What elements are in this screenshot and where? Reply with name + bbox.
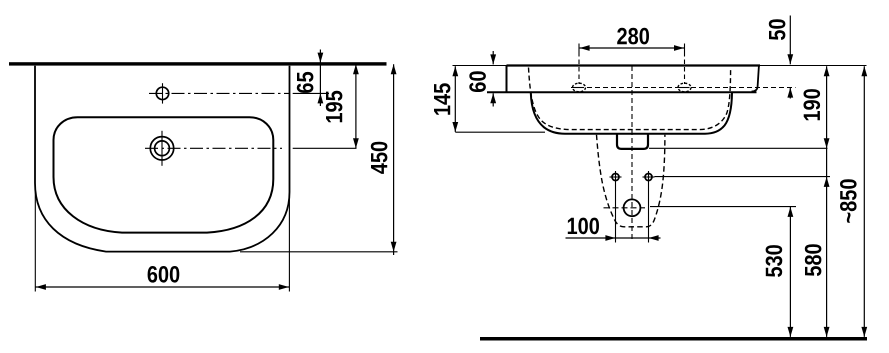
left mounting hole (dashed ellipse) — [573, 83, 586, 92]
dimension 50 upper line — [789, 16, 791, 65]
dimension 145 line — [454, 66, 456, 132]
mounting holes centerline (dashed) — [571, 87, 796, 89]
dimension 195 bottom arrow — [353, 138, 359, 148]
extension line left for dim 600 — [34, 190, 36, 292]
drain circle crosshair (dashed) — [604, 207, 646, 209]
dimension ~850 top arrow — [861, 66, 867, 76]
dimension 190 top arrow — [824, 66, 830, 76]
top edge extension line left — [453, 65, 507, 67]
dimension 530 bottom arrow — [788, 327, 794, 337]
extension line basin bottom to dim 450 — [240, 251, 398, 253]
dimension 65 label — [297, 72, 314, 93]
dimension 190 label — [804, 89, 821, 120]
dimension 580 top arrow — [824, 177, 830, 187]
tap hole outer circle — [150, 137, 173, 160]
extension line bowl bottom to dim 145 — [455, 131, 545, 133]
dimension 60 label — [469, 71, 486, 92]
dimension 195 top arrow — [353, 64, 359, 74]
drain circle — [624, 199, 641, 216]
dimension 450 top arrow — [391, 64, 397, 74]
dimension 50 bottom arrow — [787, 88, 793, 98]
basin right edge — [752, 66, 759, 92]
dimension 60 lower line — [492, 93, 494, 106]
dimension 280 left arrow — [580, 45, 590, 51]
dimension 60 bottom arrow — [490, 93, 496, 103]
dimension 450 label — [371, 142, 388, 174]
dimension 100 label — [568, 218, 599, 235]
dimension 530 top arrow — [788, 207, 794, 217]
dimension 100 left arrow — [605, 235, 615, 241]
basin left edge — [506, 66, 508, 93]
dimension 100 line — [566, 237, 661, 239]
dimension 100 right arrow — [649, 235, 659, 241]
dimension 145 bottom arrow — [452, 122, 458, 132]
dimension 145 top arrow — [452, 66, 458, 76]
dimension ~850 label — [840, 179, 857, 222]
dimension 600 label — [148, 266, 180, 283]
dimension 50 label — [769, 19, 786, 40]
extension line tap centerline to dim 195 — [293, 147, 357, 149]
tap hole vertical tick — [161, 131, 163, 166]
centerline through overflow hole — [149, 92, 290, 94]
dimension 195 line — [355, 64, 357, 148]
wall line (thick) — [9, 62, 387, 65]
right mounting hole ext line (dashed) — [684, 52, 686, 84]
extension line overflow centerline to dim 65 — [293, 92, 329, 94]
right mounting hole (dashed ellipse) — [678, 83, 691, 92]
dimension 280 line — [580, 47, 684, 49]
left mounting hole cross tick — [574, 87, 584, 89]
dimension ~850 bottom arrow — [861, 327, 867, 337]
hidden bowl outline (dashed) — [529, 68, 731, 130]
dimension 60 upper line — [492, 51, 494, 64]
dimension 580 label — [805, 244, 822, 276]
right pedestal hole — [645, 174, 652, 181]
dimension 195 label — [326, 91, 343, 123]
dimension 600 right arrow — [279, 284, 289, 290]
right mounting hole cross tick — [680, 87, 690, 89]
dimension 65 top arrow — [318, 53, 324, 63]
dimension 50 lower line — [789, 88, 791, 99]
left mounting hole ext line solid tick — [578, 44, 580, 53]
right pedestal hole ext line — [648, 171, 650, 243]
dimension 530 label — [766, 245, 783, 277]
centerline through tap hole — [145, 147, 282, 149]
washbasin inner bowl outline (top view) — [54, 117, 274, 232]
dimension 580 bottom arrow — [824, 327, 830, 337]
floor line (thick) — [480, 337, 867, 341]
left pedestal hole — [612, 174, 619, 181]
dimension 530 line — [789, 207, 791, 337]
right mounting hole ext line solid tick — [684, 44, 686, 53]
extension line right for dim 600 — [288, 198, 290, 292]
tap hole inner circle — [155, 141, 170, 156]
dimension 280 right arrow — [674, 45, 684, 51]
pedestal siphon cover outline (dashed) — [597, 135, 665, 227]
dimension 600 left arrow — [36, 284, 46, 290]
dimension 50 top arrow — [787, 54, 793, 64]
extension line drain circle to dim 530 — [650, 206, 796, 208]
overflow hole circle — [156, 87, 168, 99]
centerline vertical (dashed) — [631, 66, 633, 241]
basin top edge — [507, 64, 761, 66]
top edge extension line right — [760, 65, 867, 67]
drain fitting outline — [617, 135, 648, 149]
extension line pedestal holes to dim 580 — [655, 176, 831, 178]
washbasin outer rim outline (top view) — [35, 66, 290, 252]
dimension 65 bottom arrow — [318, 93, 324, 103]
bowl outer front outline — [531, 93, 732, 134]
dimension ~850 line — [863, 66, 865, 337]
dimension 450 line — [393, 64, 395, 255]
left mounting hole ext line (dashed) — [578, 52, 580, 84]
right pedestal hole cross tick — [643, 176, 655, 178]
dimension 65 line — [319, 50, 321, 107]
dimension 145 label — [434, 83, 450, 115]
extension line drain bottom to dim 190 — [649, 147, 828, 149]
dimension 600 line — [35, 286, 289, 288]
dimension 60 top arrow — [490, 54, 496, 64]
dimension 190 bottom arrow — [824, 138, 830, 148]
tap deck bottom line — [487, 91, 757, 93]
dimension 280 label — [617, 28, 649, 45]
overflow hole vertical tick — [162, 83, 164, 103]
left pedestal hole cross tick — [610, 176, 622, 178]
left pedestal hole ext line — [615, 171, 617, 243]
dimension 450 bottom arrow — [391, 242, 397, 252]
dimension 190-580 line — [826, 66, 828, 337]
